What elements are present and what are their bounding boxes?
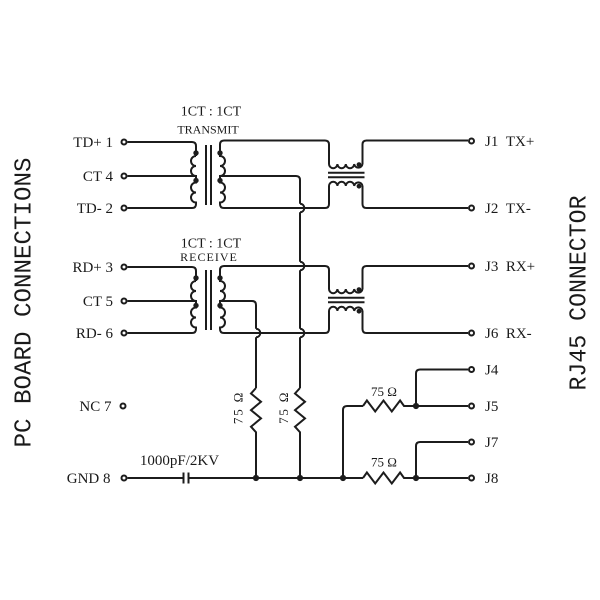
- wire choke L1 bottom to J2: [363, 186, 469, 208]
- svg-text:J8: J8: [485, 471, 498, 487]
- wire pin6 RD- to RX primary bottom: [128, 332, 193, 334]
- pin circle RD- 6: [122, 331, 127, 336]
- hop crossover at (256,333): [256, 329, 260, 338]
- polarity dot T2 primary mid: [193, 303, 198, 308]
- svg-text:PC BOARD CONNECTIONS: PC BOARD CONNECTIONS: [12, 158, 39, 448]
- polarity dot T2 secondary top: [217, 275, 222, 280]
- polarity dot T2 primary top: [193, 275, 198, 280]
- polarity dot T1 secondary mid: [217, 178, 222, 183]
- svg-text:CT 5: CT 5: [83, 294, 113, 310]
- pin circle CT 4: [122, 174, 127, 179]
- svg-text:RECEIVE: RECEIVE: [180, 250, 238, 264]
- svg-text:75 Ω: 75 Ω: [371, 455, 397, 470]
- svg-text:GND 8: GND 8: [67, 471, 111, 487]
- wire TX secondary bottom return to choke L1: [224, 186, 329, 208]
- pin circle J3: [469, 264, 474, 269]
- wire J5 line: [416, 405, 468, 407]
- svg-text:RD- 6: RD- 6: [76, 326, 114, 342]
- svg-text:J3 RX+: J3 RX+: [485, 259, 535, 275]
- pin circle J4: [469, 367, 474, 372]
- svg-text:J4: J4: [485, 363, 499, 379]
- pin circle GND 8: [122, 476, 127, 481]
- choke L2 top winding: [329, 289, 363, 293]
- capacitor C1 plates: [184, 473, 189, 484]
- wire choke L2 top to J3: [363, 266, 469, 289]
- pin circle TD+ 1: [122, 140, 127, 145]
- wire R3 left to GND rail: [343, 406, 363, 478]
- choke L1 core: [328, 173, 365, 178]
- pin circle J2: [469, 206, 474, 211]
- polarity dot T1 secondary top: [217, 150, 222, 155]
- polarity dot T2 secondary mid: [217, 303, 222, 308]
- transformer T1 TX secondary winding: [220, 145, 225, 209]
- hop crossover at (300,267): [300, 262, 304, 271]
- junction dot R1/GND: [253, 475, 259, 481]
- wire RX secondary center tap to node R1 top with hop: [220, 301, 256, 388]
- transformer T1 TX primary winding: [191, 156, 196, 208]
- resistor R1 75ohm vertical: [251, 388, 261, 478]
- transformer T2 RX secondary winding: [220, 270, 225, 334]
- svg-text:J2 TX-: J2 TX-: [485, 201, 531, 217]
- pin circle J1: [469, 139, 474, 144]
- wire pin5 CT to RX primary center tap: [128, 300, 197, 302]
- junction dot R2/GND: [297, 475, 303, 481]
- polarity dot L2 bottom: [357, 309, 362, 314]
- svg-text:CT 4: CT 4: [83, 169, 114, 185]
- svg-text:J5: J5: [485, 399, 498, 415]
- polarity dot T1 primary mid: [193, 178, 198, 183]
- svg-text:J6 RX-: J6 RX-: [485, 326, 532, 342]
- wire pin1 TD+ to TX primary top: [128, 142, 197, 156]
- wire GND rail to R4: [189, 477, 363, 479]
- wire RX secondary top to choke L2: [220, 266, 329, 289]
- junction dot R3/GND: [340, 475, 346, 481]
- resistor R2 75ohm vertical: [295, 388, 305, 478]
- choke L2 core: [328, 298, 365, 303]
- choke L2 bottom winding: [329, 307, 363, 311]
- transformer T1 core: [206, 145, 211, 205]
- svg-text:J1 TX+: J1 TX+: [485, 134, 534, 150]
- pin circle J7: [469, 440, 474, 445]
- svg-text:TD+ 1: TD+ 1: [73, 135, 113, 151]
- wire TX secondary center tap to node R2 top with hops: [220, 176, 300, 388]
- wire pin4 CT to TX primary center tap: [128, 175, 197, 177]
- wire pin8 GND to capacitor C1: [128, 477, 184, 479]
- svg-text:RD+ 3: RD+ 3: [72, 260, 113, 276]
- svg-text:75 Ω: 75 Ω: [231, 391, 246, 424]
- svg-text:TD- 2: TD- 2: [77, 201, 113, 217]
- resistor R3 75ohm horizontal: [363, 401, 416, 412]
- junction dot J4/J5: [413, 403, 419, 409]
- polarity dot T1 primary top: [193, 150, 198, 155]
- wire RX secondary bottom return to choke L2: [224, 311, 329, 333]
- hop crossover at (300,208): [300, 204, 304, 213]
- pin circle J6: [469, 331, 474, 336]
- polarity dot L2 top: [357, 287, 362, 292]
- transformer T2 RX primary winding: [191, 281, 196, 333]
- choke L1 top winding: [329, 164, 363, 168]
- wire J4 branch: [416, 370, 468, 407]
- wire J7 branch: [416, 442, 468, 478]
- svg-text:1000pF/2KV: 1000pF/2KV: [140, 453, 219, 469]
- wire choke L1 top to J1: [363, 141, 469, 165]
- wire choke L2 bottom to J6: [363, 311, 469, 333]
- svg-text:1CT : 1CT: 1CT : 1CT: [181, 105, 242, 120]
- transformer T2 core: [206, 270, 211, 330]
- pin circle RD+ 3: [122, 265, 127, 270]
- svg-text:RJ45 CONNECTOR: RJ45 CONNECTOR: [567, 196, 594, 391]
- svg-text:TRANSMIT: TRANSMIT: [177, 123, 239, 137]
- choke L1 bottom winding: [329, 182, 363, 186]
- svg-text:NC 7: NC 7: [79, 399, 112, 415]
- polarity dot L1 bottom: [357, 184, 362, 189]
- pin circle CT 5: [122, 299, 127, 304]
- pin circle NC 7: [121, 404, 126, 409]
- pin circle TD- 2: [122, 206, 127, 211]
- pin circle J5: [469, 404, 474, 409]
- junction dot J7/GND: [413, 475, 419, 481]
- svg-text:75 Ω: 75 Ω: [276, 391, 291, 424]
- svg-text:75 Ω: 75 Ω: [371, 384, 397, 399]
- pin circle J8: [469, 476, 474, 481]
- polarity dot L1 top: [357, 162, 362, 167]
- wire pin3 RD+ to RX primary top: [128, 267, 197, 281]
- resistor R4 75ohm horizontal: [363, 473, 468, 484]
- wire pin2 TD- to TX primary bottom: [128, 207, 193, 209]
- hop crossover at (300,333): [300, 329, 304, 338]
- svg-text:J7: J7: [485, 435, 499, 451]
- wire TX secondary top to choke L1: [220, 141, 329, 165]
